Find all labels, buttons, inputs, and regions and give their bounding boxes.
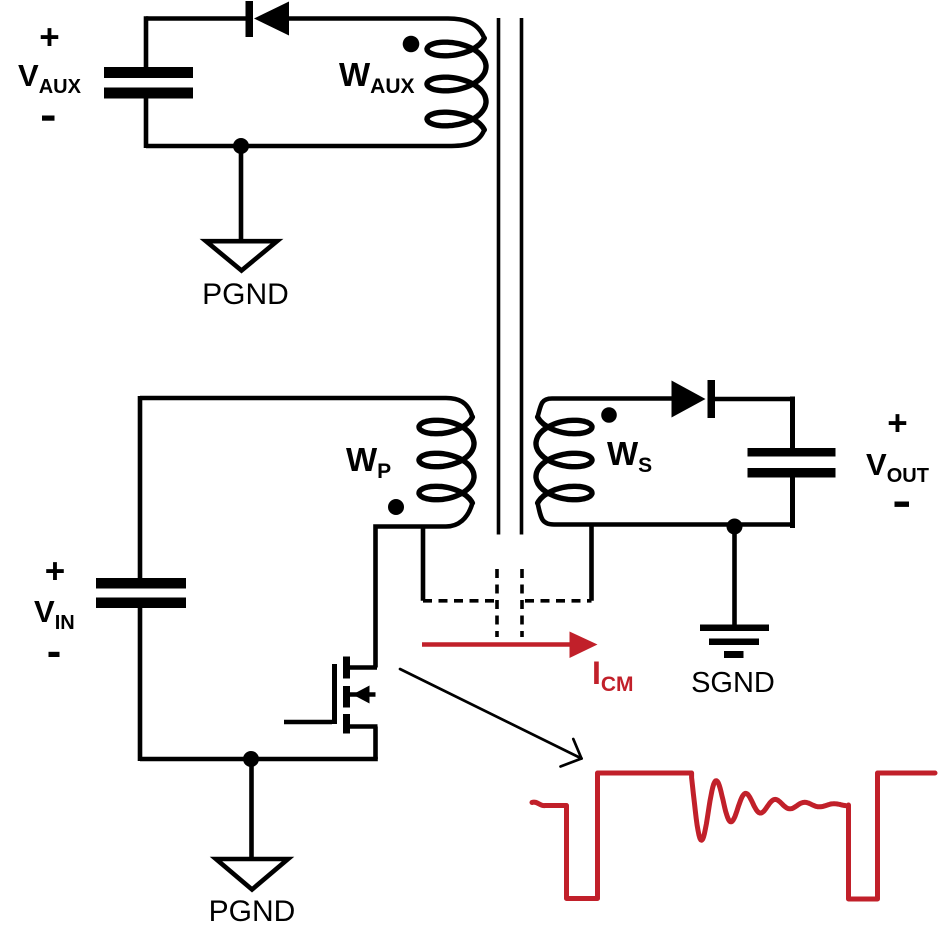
svg-text:ICM: ICM [592, 655, 634, 696]
source vertical [373, 727, 378, 760]
ground SGND bars [700, 625, 769, 659]
gate lead [284, 720, 332, 725]
dot marker W_P [388, 499, 404, 515]
wire to PGND (bottom) [249, 759, 254, 861]
W_S bottom terminal stub to parasitic cap [589, 525, 594, 601]
wire to SGND [732, 527, 737, 628]
diode D_OUT (pointing right) [672, 380, 716, 418]
winding W_S coil [536, 417, 592, 503]
svg-text:+: + [45, 552, 65, 591]
svg-text:+: + [887, 404, 907, 443]
W_S top connector curve [538, 399, 672, 418]
current arrow I_CM (red) [422, 642, 573, 647]
capacitor V_IN stubs [138, 396, 143, 579]
node junction dot (primary gnd) [243, 751, 259, 767]
svg-text:VAUX: VAUX [18, 58, 82, 98]
transformer core [499, 18, 522, 535]
source connection [348, 724, 378, 729]
svg-text:VOUT: VOUT [866, 447, 929, 487]
svg-text:WP: WP [346, 441, 391, 483]
svg-text:SGND: SGND [691, 667, 775, 699]
capacitor V_OUT plates [748, 448, 836, 478]
wire diode to W_AUX winding [289, 19, 484, 39]
svg-text:WAUX: WAUX [339, 56, 415, 98]
parasitic capacitance dashed plates [495, 569, 499, 637]
node junction dot (secondary gnd) [727, 519, 743, 535]
gate bar [332, 664, 337, 724]
label - (Vaux) [42, 116, 55, 121]
wire diode to Vout corner [715, 397, 793, 402]
W_P bottom terminal stub to parasitic cap [421, 527, 426, 601]
label - (Vin) [49, 652, 60, 657]
capacitor C_AUX plates [104, 67, 193, 99]
capacitor V_IN plates [96, 578, 186, 608]
W_P bottom connector curve [376, 503, 473, 668]
waveform I_CM trace (red) [532, 773, 935, 899]
channel bars [343, 657, 350, 679]
drain connection [348, 665, 377, 670]
W_S bottom connector curve [538, 503, 793, 525]
svg-text:WS: WS [607, 435, 652, 477]
wire top-left horizontal (Vaux top to diode) [146, 16, 246, 21]
diode D_AUX (pointing left) [246, 1, 290, 37]
node junction dot (aux gnd) [233, 138, 249, 154]
svg-text:PGND: PGND [209, 895, 296, 928]
W_P top connector curve [446, 398, 472, 417]
dot marker W_S [601, 407, 617, 423]
winding W_AUX coil [427, 38, 486, 130]
svg-text:PGND: PGND [202, 278, 289, 311]
bottom wire (Vin minus to source) [140, 757, 378, 762]
dot marker W_AUX [403, 36, 420, 53]
parasitic capacitance dashed leads [423, 569, 592, 637]
body diode arrow of Q1 [353, 686, 370, 704]
wire V_IN top to W_P [140, 396, 446, 401]
ground PGND (top) triangle [206, 241, 277, 270]
annotation arrow to waveform [400, 669, 582, 767]
svg-text:+: + [39, 18, 59, 57]
ground PGND (bottom) triangle [216, 859, 288, 890]
label - (Vout) [895, 502, 910, 507]
MOSFET Q1 [284, 657, 378, 760]
winding W_P coil [419, 417, 474, 503]
capacitor C_AUX stub wires [144, 16, 149, 68]
svg-text:VIN: VIN [34, 594, 75, 634]
W_AUX bottom connector curve [146, 130, 484, 146]
wire to PGND (top) [239, 146, 244, 243]
capacitor V_OUT stubs [790, 397, 795, 450]
body connection [350, 692, 376, 697]
